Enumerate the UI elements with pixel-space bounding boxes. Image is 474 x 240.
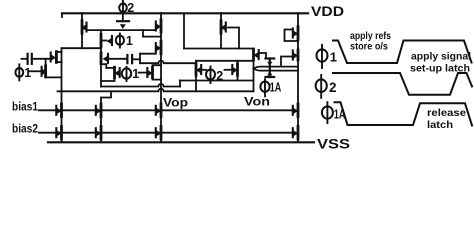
net label Vop [163, 98, 188, 110]
node phi2 label latch [206, 67, 223, 84]
wire W2 (Vop node) [101, 84, 180, 87]
wire T_a drain up to node B [195, 61, 197, 64]
wire pass gate channel upper [254, 67, 299, 69]
wire cap C1 left lead [22, 58, 28, 60]
wire T_a gate lead [201, 69, 206, 71]
wire node A y48.5 [184, 48, 254, 50]
wire P1 source down to node [81, 33, 83, 49]
wire VDD rail [62, 13, 308, 17]
annotation apply signal [411, 51, 471, 63]
transistor P1 (PMOS load left) [81, 21, 86, 34]
wire bias1 line [39, 109, 293, 111]
svg-text:latch: latch [427, 119, 453, 131]
node phi1 label mid upper [116, 34, 133, 49]
node phi1A timing label [322, 102, 346, 123]
wire T_b source down [237, 75, 239, 80]
transistor B2a (bias1 cascode, column 2) [96, 104, 101, 117]
transistor B1b (bias2 source, column 1) [56, 126, 61, 139]
svg-text:VDD: VDD [311, 4, 344, 19]
wire cap node vertical [139, 54, 141, 64]
wire P1 drain from VDD [81, 13, 83, 22]
wire column4 vertical [297, 13, 299, 142]
net label bias1 [12, 102, 39, 114]
svg-text:store o/s: store o/s [350, 41, 388, 53]
transistor P2 (phi2-gated switch, rotated) [117, 13, 129, 29]
net label VDD [311, 4, 344, 19]
wire P5 source down [220, 33, 222, 49]
wire M3 drain jog [101, 64, 115, 68]
transistor M1 (phi1 switch mid-top) [101, 34, 112, 47]
transistor M4 (phi1 autozero switch left) [42, 66, 47, 77]
svg-text:1: 1 [24, 66, 31, 80]
wire P1 gate to P3 gate (node line) [87, 29, 156, 31]
annotation latch [427, 119, 453, 131]
waveform phi1A [335, 102, 473, 125]
transistor P3 (PMOS cascode upper) [156, 20, 161, 33]
wire column2 lower jog [101, 91, 111, 142]
wire M3 source jog [101, 78, 115, 81]
wire M4 drain up to cap node [45, 59, 47, 66]
wire mid vertical from VDD [183, 13, 185, 48]
transistor M2 (input device mid) [101, 53, 108, 64]
transistor P5 (PMOS center) [220, 21, 225, 34]
wire cap C2 right lead [132, 58, 140, 60]
wire phi1 label to M4 gate [29, 70, 41, 72]
svg-text:release: release [427, 107, 466, 119]
transistor B4a (bias1 cascode, column 4) [293, 104, 298, 117]
wire W1 (upper output node) [180, 80, 254, 82]
wire M5 jogs to column [56, 52, 61, 62]
transistor M3 (phi1 switch mid-lower) [114, 67, 119, 78]
transistor P4 (PMOS cascode lower) [156, 41, 161, 54]
wire top node left [62, 47, 102, 49]
wire T_b gate lead [225, 69, 233, 71]
annotation release [427, 107, 466, 119]
transistor B3b (bias2 source, column 3) [156, 126, 161, 139]
svg-text:1A: 1A [270, 80, 282, 94]
svg-text:1: 1 [132, 67, 139, 81]
wire D1 jogs to column3 [153, 65, 162, 79]
wire W3 stub [58, 90, 62, 92]
node phi1 label mid lower (shared) [122, 67, 139, 81]
wire P4 gate lead [140, 53, 156, 55]
wire P5 gate lead [228, 28, 239, 49]
node phi1 timing label [317, 45, 338, 68]
wire P9 gate lead [281, 57, 293, 67]
capacitor C1 [28, 54, 32, 64]
capacitor C2 [127, 55, 132, 63]
wire y63 node [140, 61, 196, 64]
wire P7 gate lead [259, 53, 266, 59]
wire VSS rail [48, 141, 314, 143]
wire D1 gate lead [139, 72, 148, 74]
transistor B2b (bias2 source, column 2) [96, 126, 101, 139]
node phi2 top clock label [119, 1, 134, 15]
transistor B3a (bias1 cascode, column 3) [156, 104, 161, 117]
svg-text:1: 1 [330, 50, 337, 65]
wire P5 drain from VDD [220, 13, 222, 22]
waveform phi1 [333, 41, 472, 64]
transistor S1A (phi1A pass gate) [266, 59, 275, 78]
wire cap C1 to M5 gate [32, 58, 51, 60]
waveform phi2 [333, 73, 472, 95]
svg-text:bias2: bias2 [12, 124, 38, 136]
wire column1 vertical [61, 48, 63, 142]
transistor T_b (phi2 switch right) [232, 64, 237, 76]
wire P8 gate box [285, 30, 299, 42]
wire bias2 line [39, 132, 293, 134]
annotation store o/s [350, 41, 388, 53]
node phi1A label schematic [260, 79, 281, 96]
transistor B1a (bias1 cascode, column 1) [56, 104, 61, 117]
net label VSS [317, 137, 350, 152]
svg-text:2: 2 [127, 1, 134, 15]
wire column x253.5 down [253, 60, 255, 91]
transistor D1 (latch device left) [147, 67, 152, 78]
wire column2 vertical [100, 30, 102, 86]
wire W3 (Von node) [62, 89, 254, 92]
wire pass gate channel lower [254, 69, 299, 71]
node phi1 label left [15, 64, 31, 80]
svg-text:VSS: VSS [317, 137, 350, 152]
wire M2 gate to cap C2 [108, 58, 127, 60]
transistor T_a (phi2 switch left) [196, 64, 201, 76]
annotation set-up latch [410, 63, 470, 75]
wire M1 gate lead [101, 40, 107, 42]
transistor P8 (PMOS right, diode connected) [293, 27, 298, 40]
transistor B4b (bias2 source, column 4) [293, 126, 298, 139]
net label bias2 [12, 124, 38, 136]
wire node y36.6 to column3 [143, 36, 161, 38]
svg-text:Vop: Vop [163, 98, 188, 110]
transistor M5 (input device left) [51, 52, 57, 63]
svg-text:1: 1 [126, 34, 133, 48]
wire M4 source to column [46, 76, 62, 79]
wire T_b drain up [237, 61, 239, 64]
wire node B y60.8 [196, 60, 254, 62]
transistor P9 (cascode right) [293, 50, 298, 60]
annotation apply refs [350, 30, 391, 42]
transistor P7 (PMOS right of latch) [253, 49, 258, 60]
wire column3 vertical [160, 13, 162, 142]
svg-text:Von: Von [244, 97, 270, 109]
wire node link vertical x143 [142, 30, 144, 36]
net label Von [244, 97, 270, 109]
svg-text:bias1: bias1 [12, 102, 39, 114]
wire T_a source down to Von wire [195, 75, 197, 91]
svg-text:2: 2 [329, 80, 337, 95]
node phi2 timing label [316, 75, 337, 98]
svg-text:apply signal: apply signal [411, 51, 471, 63]
wire W1 to W2 link [179, 81, 181, 87]
